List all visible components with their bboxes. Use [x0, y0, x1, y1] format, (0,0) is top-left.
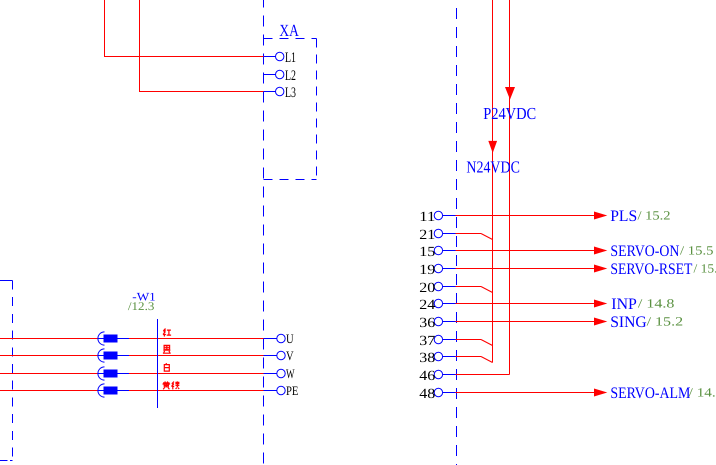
svg-text:/ 14.: / 14. — [689, 385, 716, 399]
svg-text:XA: XA — [279, 21, 299, 40]
svg-text:W: W — [286, 366, 295, 381]
svg-text:/ 15.2: / 15.2 — [638, 208, 671, 222]
svg-text:U: U — [286, 331, 294, 346]
svg-text:19: 19 — [419, 263, 435, 278]
svg-text:SERVO-ALM: SERVO-ALM — [610, 385, 690, 402]
svg-text:38: 38 — [419, 351, 435, 366]
svg-text:36: 36 — [419, 316, 435, 331]
svg-text:/ 15.2: / 15.2 — [647, 314, 684, 328]
svg-text:21: 21 — [419, 228, 435, 243]
svg-text:37: 37 — [419, 334, 435, 349]
svg-text:SERVO-RSET: SERVO-RSET — [610, 261, 692, 278]
svg-text:N24VDC: N24VDC — [466, 158, 520, 177]
svg-text:SING: SING — [610, 314, 647, 331]
svg-text:11: 11 — [419, 210, 435, 225]
svg-text:/12.3: /12.3 — [128, 299, 155, 313]
svg-text:46: 46 — [419, 369, 435, 384]
svg-text:15: 15 — [419, 245, 435, 260]
svg-text:L1: L1 — [285, 50, 296, 66]
svg-text:INP: INP — [611, 296, 637, 313]
svg-text:SERVO-ON: SERVO-ON — [610, 243, 679, 260]
svg-text:24: 24 — [419, 298, 435, 313]
svg-text:/ 14.8: / 14.8 — [638, 296, 675, 310]
svg-text:P24VDC: P24VDC — [483, 104, 536, 123]
svg-text:L3: L3 — [285, 85, 296, 101]
svg-text:L2: L2 — [285, 68, 296, 84]
svg-text:48: 48 — [419, 387, 435, 402]
svg-text:20: 20 — [419, 281, 435, 296]
svg-text:/ 15.: / 15. — [694, 261, 716, 275]
svg-text:PLS: PLS — [610, 208, 637, 225]
svg-text:PE: PE — [286, 383, 298, 398]
svg-text:V: V — [286, 348, 294, 363]
svg-text:/ 15.5: / 15.5 — [680, 243, 714, 257]
